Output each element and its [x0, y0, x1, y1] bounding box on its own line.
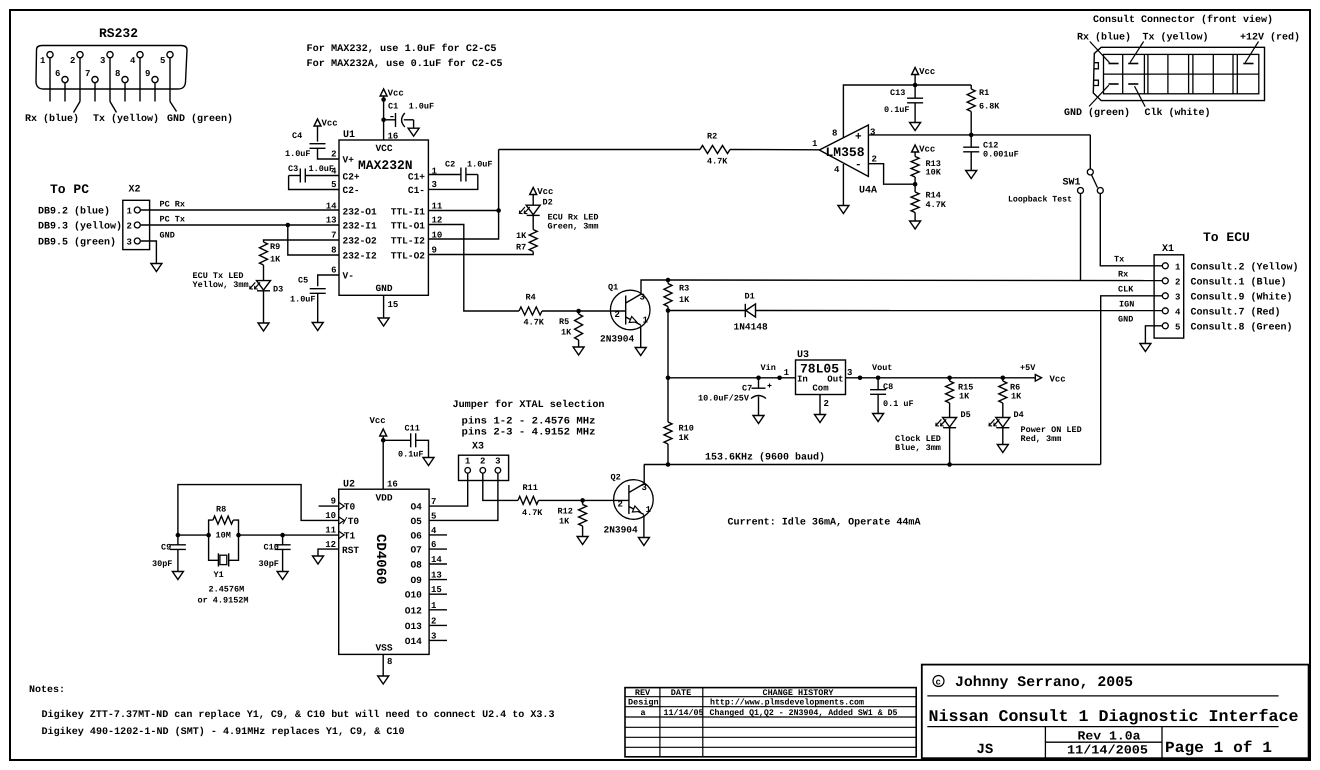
leader to GND label [170, 102, 177, 112]
svg-text:Tx (yellow): Tx (yellow) [93, 113, 159, 125]
svg-text:2: 2 [70, 56, 75, 66]
svg-text:VSS: VSS [375, 643, 392, 654]
DB9 pin 4 [130, 52, 143, 102]
svg-text:12: 12 [325, 540, 336, 550]
svg-text:Vcc: Vcc [919, 145, 935, 155]
label DB9.3 (yellow) [38, 221, 122, 233]
wire CLK to X1.3 [1101, 285, 1163, 465]
leader GND [1089, 85, 1109, 106]
svg-text:IGN: IGN [1119, 300, 1134, 310]
junction at R5 [576, 309, 581, 314]
label Power ON LED Red 3mm [1021, 425, 1082, 444]
svg-text:0.1 uF: 0.1 uF [883, 399, 914, 409]
svg-text:R2: R2 [707, 132, 717, 142]
svg-text:4.7K: 4.7K [707, 157, 728, 167]
label 153.6KHz (9600 baud) [705, 452, 825, 464]
DB9 pin 3 [100, 52, 113, 102]
svg-text:8: 8 [331, 246, 336, 256]
regulator U3 78L05 [784, 350, 853, 395]
svg-text:Y1: Y1 [214, 570, 224, 580]
labels Rx Tx +12V [1077, 32, 1300, 44]
svg-text:R3: R3 [679, 284, 689, 294]
svg-text:Vcc: Vcc [1050, 375, 1066, 385]
svg-text:GND (green): GND (green) [167, 113, 233, 125]
wire 153.6KHz clock row [644, 464, 1101, 466]
svg-text:D3: D3 [273, 285, 283, 295]
svg-text:Out: Out [827, 375, 843, 385]
svg-text:2: 2 [1175, 277, 1180, 287]
ground at X1.5 [1140, 344, 1151, 352]
svg-text:1K: 1K [516, 231, 527, 241]
wire R6 to D4 [1002, 403, 1004, 418]
svg-text:C5: C5 [298, 276, 308, 286]
wire C7 to ground [758, 397, 760, 416]
svg-text:13: 13 [326, 216, 337, 226]
label Consult.9 (White) [1191, 292, 1293, 304]
svg-text:Vout: Vout [872, 363, 892, 373]
U2 pin12 wire to ground [318, 540, 339, 556]
junction U3 out [858, 376, 863, 381]
wire R4 to Q1 base [542, 310, 626, 312]
page number [1165, 739, 1272, 757]
svg-text:Loopback Test: Loopback Test [1008, 195, 1072, 205]
Vcc above D2 [530, 187, 554, 197]
svg-text:1K: 1K [559, 517, 570, 527]
op-amp U1 MAX232N box [339, 130, 428, 295]
svg-text:Vcc: Vcc [919, 67, 935, 77]
U1 pin16 wire and pin number [384, 96, 399, 142]
svg-text:R5: R5 [559, 317, 569, 327]
wire pin3 row to SW1 [1089, 135, 1091, 169]
svg-text:X1: X1 [1162, 244, 1174, 255]
label DB9.5 (green) [38, 237, 116, 249]
svg-text:TTL-O1: TTL-O1 [391, 221, 426, 232]
svg-text:6.8K: 6.8K [979, 102, 1000, 112]
svg-text:R11: R11 [523, 483, 538, 493]
leader +12V [1245, 42, 1258, 63]
DB9 pin 9 [145, 69, 158, 102]
svg-text:Consult.1 (Blue): Consult.1 (Blue) [1191, 277, 1287, 289]
junction at R6 [1001, 376, 1006, 381]
svg-text:3: 3 [495, 457, 500, 467]
junction at U3 pin1 [777, 376, 782, 381]
copyright text [933, 675, 1133, 691]
leader Tx [1130, 42, 1144, 63]
ground at R14 [910, 221, 921, 229]
svg-text:Blue, 3mm: Blue, 3mm [895, 443, 941, 453]
svg-text:O5: O5 [410, 516, 422, 527]
wire U1.12 down to R4 [428, 225, 519, 312]
svg-text:O8: O8 [410, 560, 422, 571]
U2 pin9 stub [319, 497, 339, 507]
svg-text:2N3904: 2N3904 [600, 334, 635, 345]
capacitor C13 0.1uF [884, 85, 923, 115]
svg-text:11/14/05: 11/14/05 [664, 708, 704, 718]
svg-text:pins 2-3 - 4.9152 MHz: pins 2-3 - 4.9152 MHz [462, 427, 596, 439]
DB9 pin 7 [85, 69, 98, 102]
svg-text:C1-: C1- [408, 185, 425, 196]
svg-text:Design: Design [628, 698, 659, 708]
wire R2 row left segment [499, 149, 700, 151]
svg-text:R7: R7 [516, 243, 526, 253]
svg-text:R12: R12 [558, 507, 573, 517]
connector X3 [459, 442, 509, 481]
svg-text:9: 9 [145, 69, 150, 79]
svg-text:O12: O12 [405, 605, 422, 616]
capacitor C2 1.0uF [428, 160, 492, 190]
svg-text:Rev 1.0a: Rev 1.0a [1078, 730, 1142, 744]
svg-text:0.1uF: 0.1uF [884, 105, 910, 115]
svg-text:/T0: /T0 [342, 516, 359, 527]
wire C5 to ground [317, 293, 319, 322]
capacitor C9 30pF [152, 535, 186, 569]
svg-text:8: 8 [115, 69, 120, 79]
wire U3 pin2 to ground [820, 395, 829, 415]
wire C10 to ground [282, 550, 284, 572]
svg-text:30pF: 30pF [259, 559, 279, 569]
wire U1.6 to C5 [318, 275, 339, 286]
svg-text:232-I2: 232-I2 [343, 251, 378, 262]
ground at U1 pin 15 [378, 318, 389, 326]
wire /T0 loop top [178, 485, 339, 535]
svg-text:R1: R1 [979, 88, 989, 98]
svg-text:Com: Com [812, 384, 829, 394]
wire R7 to U1.9 [428, 252, 533, 255]
svg-text:1: 1 [812, 139, 818, 149]
label Consult.8 (Green) [1191, 322, 1293, 334]
svg-text:Rx (blue): Rx (blue) [25, 113, 79, 125]
svg-text:3: 3 [1175, 292, 1180, 302]
consult pin Clk [1128, 83, 1138, 85]
title text [929, 707, 1299, 726]
svg-text:9: 9 [331, 497, 336, 507]
svg-text:In: In [797, 375, 808, 385]
resistor R2 4.7K [700, 132, 730, 167]
svg-text:1: 1 [646, 505, 652, 515]
label Consult.2 (Yellow) [1191, 262, 1299, 274]
svg-text:pins 1-2 - 2.4576 MHz: pins 1-2 - 2.4576 MHz [462, 416, 596, 428]
svg-text:X3: X3 [472, 442, 484, 453]
wire C12 to ground [970, 152, 972, 171]
U1 pin15 wire to ground [384, 295, 399, 318]
svg-text:Clk (white): Clk (white) [1145, 107, 1211, 119]
svg-text:8: 8 [387, 657, 392, 667]
svg-text:U1: U1 [343, 130, 355, 141]
svg-text:Page 1 of 1: Page 1 of 1 [1165, 739, 1272, 757]
svg-text:Nissan Consult 1 Diagnostic In: Nissan Consult 1 Diagnostic Interface [929, 707, 1299, 726]
svg-text:D1: D1 [745, 292, 755, 302]
ground at C11 [423, 458, 434, 466]
resistor R7 1K [516, 230, 537, 253]
svg-text:1K: 1K [679, 295, 690, 305]
svg-text:VDD: VDD [375, 493, 392, 504]
connector X1 [1154, 244, 1184, 338]
svg-text:11: 11 [325, 526, 336, 536]
ground at C1 [408, 128, 419, 136]
label Jumper for XTAL selection [453, 399, 605, 439]
svg-text:4: 4 [834, 165, 840, 175]
svg-text:PC Rx: PC Rx [160, 200, 186, 210]
Vcc above R13 [912, 145, 936, 155]
svg-text:0.001uF: 0.001uF [983, 150, 1019, 160]
svg-text:3: 3 [127, 238, 132, 248]
svg-text:1: 1 [465, 457, 471, 467]
svg-text:DB9.3 (yellow): DB9.3 (yellow) [38, 221, 122, 233]
resistor R9 1K [260, 242, 282, 265]
label Rx (blue) [25, 113, 79, 125]
ground at C12 [966, 171, 977, 179]
DB9 pin 8 [115, 69, 128, 102]
svg-text:15: 15 [388, 300, 399, 310]
ground at Q2 emitter [638, 538, 649, 546]
resistor R14 4.7K [911, 191, 947, 213]
svg-text:4.7K: 4.7K [522, 508, 543, 518]
wire PC Rx : X2.1 to U1.14 [140, 200, 339, 211]
svg-text:16: 16 [388, 132, 399, 142]
label Loopback Test [1008, 195, 1072, 205]
junction at R15 [947, 376, 952, 381]
U2 pin11 number [325, 526, 336, 536]
svg-text:Johnny Serrano, 2005: Johnny Serrano, 2005 [955, 675, 1133, 691]
label DB9.2 (blue) [38, 206, 110, 218]
svg-text:232-O2: 232-O2 [343, 236, 378, 247]
svg-text:1N4148: 1N4148 [734, 322, 769, 333]
svg-text:REV: REV [635, 688, 651, 698]
wire U1.7 to R9 [264, 240, 340, 242]
svg-text:C2+: C2+ [343, 171, 360, 182]
svg-text:C9: C9 [161, 543, 171, 553]
wire D5 to clock row [947, 428, 952, 467]
wire R10 to clock row [666, 444, 671, 467]
diode D1 1N4148 [668, 292, 768, 333]
svg-text:C10: C10 [264, 543, 279, 553]
svg-text:Consult.7 (Red): Consult.7 (Red) [1191, 307, 1281, 319]
leader to Rx label [74, 102, 81, 113]
label Vin [761, 363, 776, 373]
consult pin Rx [1109, 63, 1119, 65]
svg-text:+5V: +5V [1020, 363, 1036, 373]
capacitor C7 10.0uF/25V polarized [698, 378, 772, 404]
svg-text:R8: R8 [216, 505, 226, 515]
wire T1 node row [178, 534, 339, 536]
svg-text:1K: 1K [679, 433, 690, 443]
junction at C9 [176, 533, 181, 538]
svg-text:14: 14 [326, 202, 337, 212]
label To PC [50, 182, 89, 197]
wire D3 to ground [263, 291, 265, 323]
svg-text:2: 2 [618, 500, 623, 510]
svg-text:O7: O7 [410, 545, 422, 556]
labels GND Clk [1064, 107, 1211, 119]
LED D3 ECU Tx [250, 281, 284, 295]
junction at C7 [756, 376, 761, 381]
wire U4A pin8 to Vcc row [843, 85, 915, 138]
svg-text:DB9.2 (blue): DB9.2 (blue) [38, 206, 110, 218]
svg-text:O4: O4 [410, 502, 422, 513]
svg-text:U3: U3 [797, 350, 809, 361]
Vcc above C4 [314, 119, 338, 129]
wire label IGN [1119, 300, 1134, 310]
LED D2 ECU Rx [519, 198, 552, 216]
wire R11 to Q2 base [539, 499, 629, 501]
consult pin +12V [1243, 63, 1253, 65]
svg-text:R9: R9 [270, 242, 280, 252]
svg-text:JS: JS [977, 742, 994, 758]
svg-text:8: 8 [832, 129, 837, 139]
consult pin Tx [1128, 63, 1138, 65]
connector X2 [123, 185, 150, 250]
svg-text:CHANGE HISTORY: CHANGE HISTORY [763, 688, 835, 698]
Vcc above LM358 [912, 67, 936, 77]
wire U4A pin2 to divider [868, 164, 915, 185]
resistor R11 4.7K [518, 483, 543, 518]
resistor R10 1K [664, 378, 694, 444]
svg-text:LM358: LM358 [826, 145, 865, 160]
label Tx (yellow) [93, 113, 159, 125]
note MAX232 capacitor values [307, 43, 503, 70]
svg-text:232-O1: 232-O1 [343, 207, 378, 218]
wire C13 to ground [914, 103, 916, 123]
resistor R5 1K [559, 311, 583, 340]
svg-text:3: 3 [642, 483, 647, 493]
wire R1 to pin3 row [969, 112, 974, 138]
svg-text:Digikey 490-1202-1-ND (SMT) -: Digikey 490-1202-1-ND (SMT) - 4.91MHz re… [42, 726, 405, 738]
label Current Idle Operate [728, 517, 921, 529]
label ECU Tx LED Yellow 3mm [193, 271, 249, 290]
wire R12 to ground [582, 526, 584, 537]
resistor R6 1K [999, 378, 1022, 403]
resistor R13 10K [911, 152, 942, 178]
capacitor C8 0.1uF [870, 378, 914, 409]
wire C9 to ground [177, 550, 179, 572]
svg-text:1.0uF: 1.0uF [285, 149, 311, 159]
svg-text:C7: C7 [742, 384, 752, 394]
svg-text:10: 10 [325, 511, 336, 521]
label Consult.1 (Blue) [1191, 277, 1287, 289]
svg-text:U2: U2 [343, 480, 355, 491]
svg-text:X2: X2 [129, 185, 141, 196]
svg-text:C13: C13 [890, 88, 905, 98]
resistor R15 1K [946, 378, 974, 403]
U2 pin10 number [325, 511, 336, 521]
Vcc at U1 pin 16 [380, 89, 404, 102]
junction R8 right [236, 533, 241, 538]
svg-text:V-: V- [343, 271, 354, 282]
capacitor C4 1.0uF [285, 126, 339, 159]
svg-text:TTL-O2: TTL-O2 [391, 251, 426, 262]
svg-text:1K: 1K [561, 328, 572, 338]
svg-text:2: 2 [480, 457, 485, 467]
svg-text:T1: T1 [344, 531, 356, 542]
wire X2.3 GND [140, 231, 174, 264]
wire X1.5 GND [1118, 315, 1162, 344]
svg-text:D4: D4 [1014, 410, 1024, 420]
wire R14 to ground [914, 213, 916, 222]
resistor R1 6.8K [967, 85, 1000, 112]
wire R15 to D5 [949, 403, 951, 418]
svg-text:CLK: CLK [1118, 285, 1134, 295]
label Clock LED Blue 3mm [895, 434, 941, 453]
ground at C5 [312, 323, 323, 331]
notes text [29, 685, 555, 738]
svg-text:C8: C8 [883, 382, 893, 392]
svg-text:1: 1 [1175, 262, 1181, 272]
svg-text:DATE: DATE [671, 688, 691, 698]
svg-text:RS232: RS232 [99, 26, 138, 41]
svg-text:a: a [641, 708, 646, 718]
wire junction up to R2 row [498, 150, 500, 211]
svg-text:C1+: C1+ [408, 171, 425, 182]
svg-text:R4: R4 [526, 293, 536, 303]
svg-text:Vcc: Vcc [388, 89, 404, 99]
wire junction down to U1.10 [428, 211, 498, 240]
capacitor C5 1.0uF [290, 276, 326, 305]
svg-text:2: 2 [331, 150, 336, 160]
wire Q1 collector to Rx row [641, 280, 668, 294]
wire PC Tx : X2.2 to U1.13 [140, 215, 339, 226]
svg-text:10.0uF/25V: 10.0uF/25V [698, 394, 750, 404]
ground at Q1 emitter [635, 348, 646, 356]
svg-text:GND: GND [160, 231, 175, 241]
svg-text:Yellow, 3mm: Yellow, 3mm [193, 280, 249, 290]
op-amp U4A LM358 [819, 125, 877, 197]
svg-text:O6: O6 [410, 530, 422, 541]
junction Vin row left [666, 376, 671, 381]
svg-text:U4A: U4A [859, 186, 877, 197]
wire SW1 left to Rx row [1080, 194, 1082, 281]
svg-text:O13: O13 [405, 621, 422, 632]
svg-text:For MAX232, use 1.0uF for C2-C: For MAX232, use 1.0uF for C2-C5 [307, 43, 497, 55]
svg-text:Vcc: Vcc [370, 416, 386, 426]
svg-text:-: - [855, 160, 862, 172]
wire Rx row to X1.2 [668, 279, 1162, 282]
svg-text:Changed Q1,Q2 - 2N3904, Added: Changed Q1,Q2 - 2N3904, Added SW1 & D5 [710, 708, 898, 718]
svg-text:Q2: Q2 [611, 473, 621, 483]
svg-text:6: 6 [331, 266, 336, 276]
ground at U2 pin12 [313, 556, 324, 564]
capacitor C12 0.001uF [963, 135, 1019, 160]
svg-text:2N3904: 2N3904 [604, 525, 639, 536]
revision Rev 1.0a [1078, 730, 1142, 744]
svg-text:Vin: Vin [761, 363, 776, 373]
svg-text:DB9.5 (green): DB9.5 (green) [38, 237, 116, 249]
Vcc above U2 [370, 416, 387, 436]
wire X3.1 to U2 O4 [429, 473, 468, 506]
svg-text:+: + [855, 132, 862, 144]
svg-text:CD4060: CD4060 [372, 534, 388, 584]
svg-text:1.0uF: 1.0uF [409, 101, 435, 111]
ground at C9 [172, 572, 183, 580]
revision date [1067, 744, 1148, 758]
junction at C8 [876, 376, 881, 381]
svg-text:C11: C11 [405, 424, 420, 434]
label Consult.7 (Red) [1191, 307, 1281, 319]
label Consult Connector (front view) [1093, 14, 1273, 26]
svg-text:2: 2 [615, 310, 620, 320]
svg-text:TTL-I2: TTL-I2 [391, 236, 426, 247]
wire label Tx [1114, 255, 1124, 265]
wire X3.3 to U2 O5 [429, 473, 498, 520]
ground at R12 [577, 537, 588, 545]
ground at C13 [910, 123, 921, 131]
svg-text:Consult.2 (Yellow): Consult.2 (Yellow) [1191, 262, 1299, 274]
svg-text:10K: 10K [926, 168, 942, 178]
U2 output pins O4-O14 [405, 497, 447, 647]
svg-text:O9: O9 [410, 575, 422, 586]
svg-text:1: 1 [40, 56, 46, 66]
wire U1.11 to junction [428, 210, 498, 212]
svg-text:MAX232N: MAX232N [358, 158, 413, 173]
